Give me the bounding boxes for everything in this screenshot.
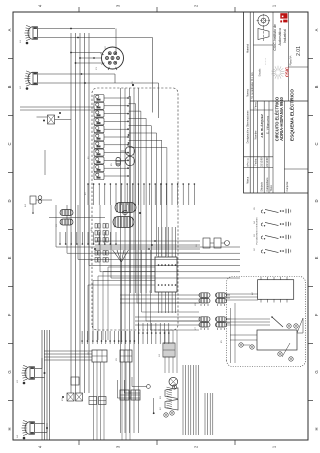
svg-text:Nombre: Nombre bbox=[255, 130, 258, 140]
svg-text:CSIC: CSIC bbox=[284, 67, 289, 77]
svg-text:4: 4 bbox=[38, 445, 43, 448]
svg-text:H4: H4 bbox=[17, 434, 19, 438]
svg-text:H: H bbox=[7, 427, 12, 430]
svg-text:Marca: Marca bbox=[246, 176, 249, 184]
svg-text:S5: S5 bbox=[254, 207, 256, 210]
svg-text:E: E bbox=[7, 256, 12, 259]
svg-text:X4: X4 bbox=[159, 354, 161, 357]
svg-text:Fecha: Fecha bbox=[255, 158, 258, 166]
svg-text:D: D bbox=[7, 199, 12, 202]
svg-text:F: F bbox=[314, 313, 319, 316]
svg-text:A: A bbox=[7, 28, 12, 31]
svg-text:3: 3 bbox=[116, 445, 121, 448]
svg-text:20/10/99: 20/10/99 bbox=[261, 157, 264, 167]
svg-text:K5: K5 bbox=[221, 340, 223, 343]
svg-text:K4: K4 bbox=[25, 204, 27, 207]
svg-text:E2: E2 bbox=[160, 407, 162, 410]
svg-text:S2: S2 bbox=[254, 248, 256, 251]
svg-text:E: E bbox=[314, 256, 319, 259]
svg-text:S1: S1 bbox=[196, 244, 198, 247]
svg-text:H2: H2 bbox=[20, 85, 22, 89]
svg-text:F1: F1 bbox=[88, 156, 90, 159]
svg-text:X3: X3 bbox=[56, 224, 58, 227]
svg-text:X9: X9 bbox=[116, 358, 118, 361]
svg-text:4: 4 bbox=[38, 4, 43, 7]
svg-text:B: B bbox=[7, 85, 12, 88]
svg-text:X1: X1 bbox=[96, 67, 98, 70]
svg-text:Automática: Automática bbox=[278, 28, 282, 46]
svg-text:NºPiezas: NºPiezas bbox=[247, 158, 250, 167]
svg-text:ESQUEMA ELÉCTRICO: ESQUEMA ELÉCTRICO bbox=[288, 89, 295, 141]
svg-text:B1: B1 bbox=[91, 228, 93, 231]
svg-text:E5: E5 bbox=[111, 163, 113, 166]
svg-text:E. Villanueva: E. Villanueva bbox=[265, 116, 269, 134]
svg-text:H3: H3 bbox=[17, 379, 19, 383]
svg-text:J.M. BLÁZQUEZ: J.M. BLÁZQUEZ bbox=[259, 114, 264, 138]
svg-text:X5: X5 bbox=[150, 290, 152, 293]
svg-text:Industrial: Industrial bbox=[283, 29, 287, 43]
svg-text:X7: X7 bbox=[195, 327, 197, 330]
svg-text:G: G bbox=[7, 370, 12, 373]
svg-text:K2: K2 bbox=[85, 192, 87, 195]
svg-text:Designación y Observaciones: Designación y Observaciones bbox=[246, 110, 249, 144]
svg-text:30: 30 bbox=[132, 81, 134, 84]
svg-text:1: 1 bbox=[272, 4, 277, 7]
svg-text:M1: M1 bbox=[160, 395, 162, 399]
svg-text:2: 2 bbox=[194, 4, 199, 7]
svg-text:CSIC-Instituto de: CSIC-Instituto de bbox=[273, 24, 277, 51]
svg-text:X2: X2 bbox=[105, 46, 107, 49]
svg-text:2: 2 bbox=[194, 445, 199, 448]
svg-text:B2: B2 bbox=[91, 258, 93, 261]
svg-text:D: D bbox=[314, 199, 319, 202]
svg-text:Plano Nº:: Plano Nº: bbox=[289, 55, 293, 65]
svg-text:B: B bbox=[314, 85, 319, 88]
svg-text:Norma: Norma bbox=[246, 89, 249, 97]
svg-text:1: 1 bbox=[272, 445, 277, 448]
svg-text:C: C bbox=[7, 142, 12, 145]
svg-text:H1: H1 bbox=[20, 39, 22, 43]
svg-text:Tol. no indicadas ±0.1 mm: Tol. no indicadas ±0.1 mm bbox=[252, 72, 254, 99]
svg-text:- - - - -: - - - - - bbox=[264, 58, 267, 65]
svg-text:ADRIA-HISPANIA 9940: ADRIA-HISPANIA 9940 bbox=[279, 96, 284, 140]
svg-text:X6: X6 bbox=[195, 303, 197, 306]
svg-text:Material: Material bbox=[246, 44, 249, 53]
svg-text:Dibujado: Dibujado bbox=[261, 181, 264, 191]
svg-text:S4: S4 bbox=[254, 221, 256, 224]
svg-text:Escala:: Escala: bbox=[259, 68, 262, 76]
svg-text:X8: X8 bbox=[88, 352, 90, 355]
svg-text:F: F bbox=[7, 313, 12, 316]
svg-text:2.01: 2.01 bbox=[296, 46, 302, 56]
svg-text:Firma: Firma bbox=[255, 102, 258, 109]
svg-text:C: C bbox=[314, 142, 319, 145]
svg-text:Título:: Título: bbox=[270, 185, 273, 192]
svg-text:A: A bbox=[314, 28, 319, 31]
svg-text:Conjunto:: Conjunto: bbox=[286, 181, 289, 192]
svg-text:3: 3 bbox=[116, 4, 121, 7]
svg-text:G: G bbox=[314, 370, 319, 373]
svg-text:20/10/99: 20/10/99 bbox=[266, 157, 269, 167]
svg-text:Comprobado: Comprobado bbox=[266, 177, 269, 191]
svg-text:K3: K3 bbox=[62, 398, 64, 401]
svg-text:H: H bbox=[314, 427, 319, 430]
svg-text:S3: S3 bbox=[254, 234, 256, 237]
svg-text:A2: A2 bbox=[251, 292, 254, 295]
